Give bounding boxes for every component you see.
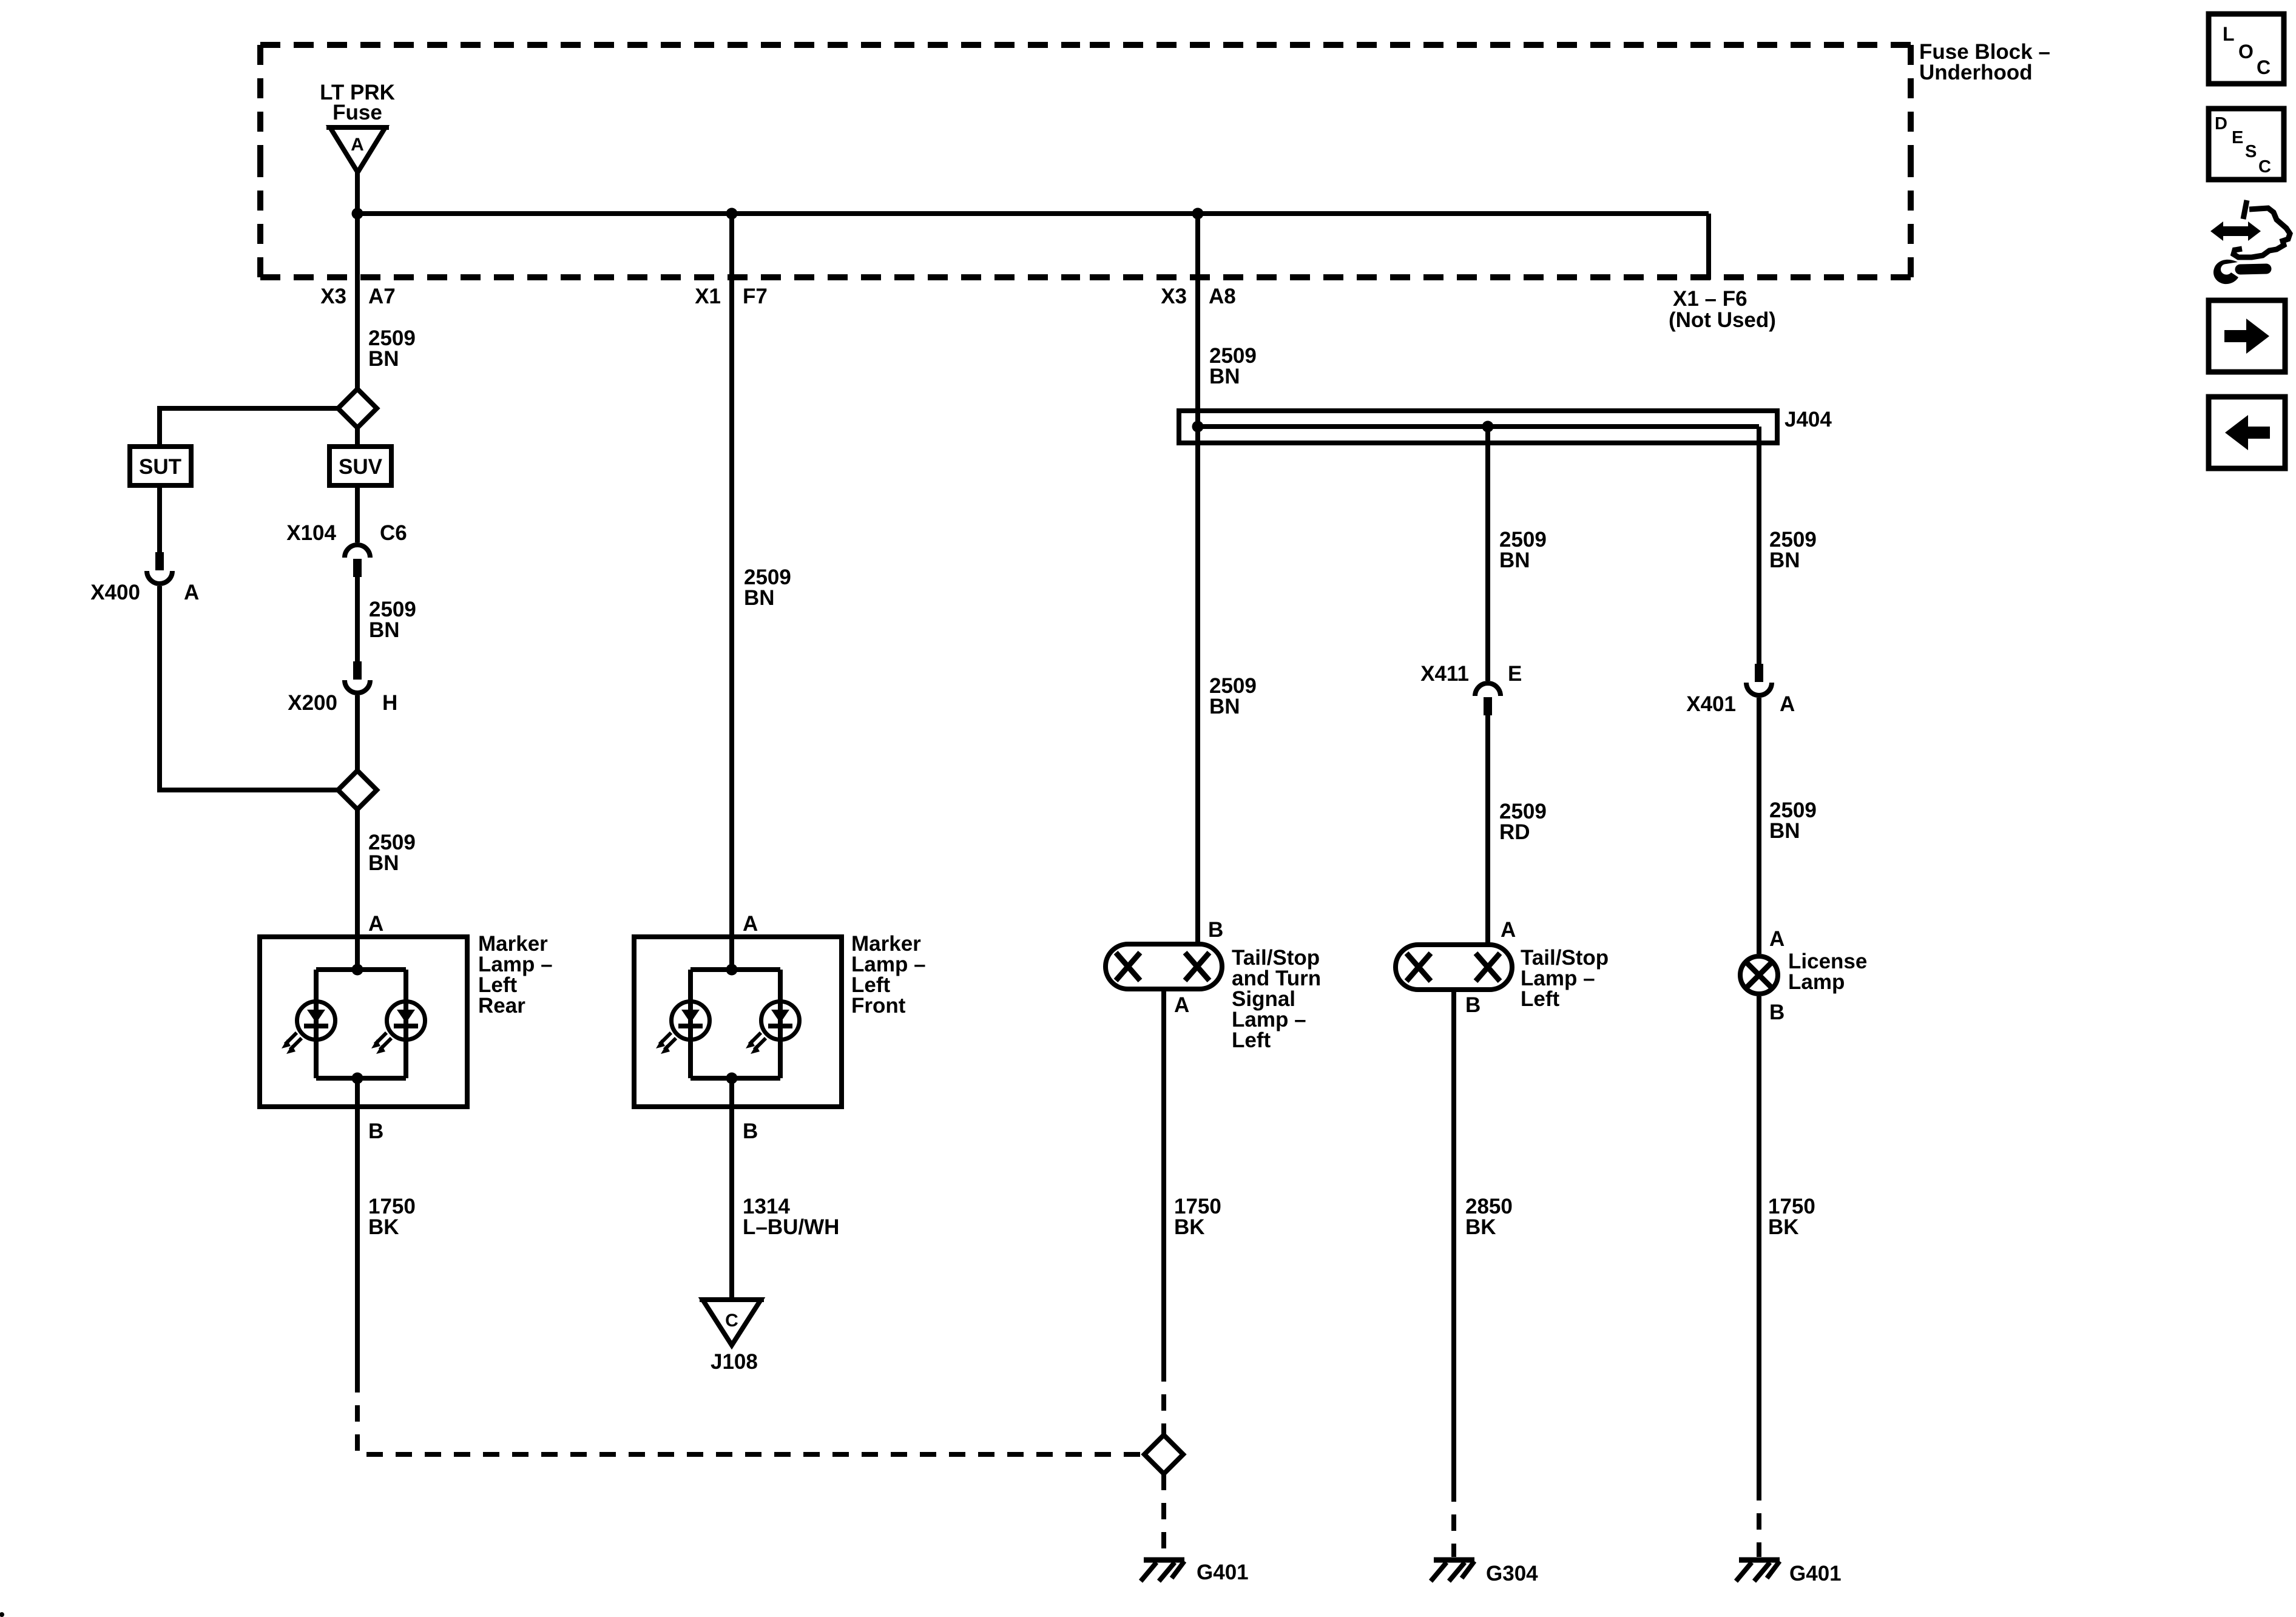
wire: SUV to connector X104 bbox=[355, 485, 360, 542]
svg-text:Front: Front bbox=[851, 994, 906, 1018]
wire: diamond S1 left branch to SUT bbox=[160, 408, 338, 447]
bulb X left of lamp4 bbox=[1406, 953, 1431, 981]
connector X401 socket A (female cup) bbox=[1746, 683, 1772, 695]
svg-text:F7: F7 bbox=[743, 285, 768, 308]
wire: lamp2 pin B down to J108 bbox=[729, 1078, 734, 1300]
svg-text:C: C bbox=[725, 1311, 738, 1331]
connector X104 socket C6 (female dome) bbox=[345, 545, 370, 558]
Marker Lamp - Left Rear outer box bbox=[260, 937, 467, 1107]
svg-text:X1 – F6: X1 – F6 bbox=[1673, 287, 1747, 311]
svg-text:C: C bbox=[2257, 56, 2271, 78]
wire: diamond S1 to SUV bbox=[355, 428, 360, 447]
ground triangle J108 destination C bbox=[703, 1300, 761, 1345]
LED D1 of lamp2 bbox=[656, 1001, 710, 1054]
svg-text:BN: BN bbox=[368, 347, 399, 371]
svg-text:A: A bbox=[351, 135, 364, 155]
icon box DESC bbox=[2209, 109, 2284, 180]
svg-text:X104: X104 bbox=[286, 521, 336, 545]
wire: X400 down and right to splice diamond S2 bbox=[160, 586, 338, 790]
svg-text:G401: G401 bbox=[1789, 1562, 1842, 1585]
svg-text:BN: BN bbox=[1769, 819, 1800, 843]
svg-text:A: A bbox=[1501, 918, 1516, 942]
svg-text:Left: Left bbox=[1521, 987, 1560, 1011]
connector X400 socket (female cup) bbox=[147, 571, 172, 584]
bulb X right of lamp4 bbox=[1476, 953, 1500, 981]
svg-text:E: E bbox=[1508, 662, 1522, 686]
svg-text:B: B bbox=[1465, 993, 1481, 1017]
svg-text:G401: G401 bbox=[1197, 1561, 1249, 1584]
Marker Lamp - Left Front outer box bbox=[634, 937, 842, 1107]
svg-text:A: A bbox=[1780, 692, 1795, 716]
bulb X left of lamp3 bbox=[1116, 953, 1140, 981]
svg-text:BN: BN bbox=[1209, 365, 1240, 388]
J404 splice pack box bbox=[1179, 411, 1777, 443]
svg-text:X411: X411 bbox=[1420, 662, 1469, 686]
wire: C5 from J404 right end down to X401 bbox=[1757, 427, 1761, 664]
svg-text:X1: X1 bbox=[695, 285, 721, 308]
node: bus junction at C1 bbox=[352, 208, 363, 220]
node: lamp2 top junction bbox=[726, 964, 738, 976]
node: lamp1 bottom junction bbox=[352, 1073, 363, 1084]
node: bus junction at C3 bbox=[1192, 208, 1204, 220]
wire: dashed S3 to ground G401 bbox=[1161, 1474, 1166, 1557]
svg-text:B: B bbox=[1208, 918, 1223, 942]
icon: vehicle with double arrow and wrench bbox=[2210, 200, 2290, 284]
wire: lamp4 pin B down bbox=[1451, 990, 1456, 1485]
node: lamp2 bottom junction bbox=[726, 1073, 738, 1084]
svg-text:X400: X400 bbox=[90, 581, 140, 604]
svg-text:BK: BK bbox=[1768, 1215, 1799, 1239]
svg-text:Fuse: Fuse bbox=[333, 101, 382, 124]
wire: dashed to ground G401 right bbox=[1757, 1484, 1761, 1557]
connector X400 pin A (male) bbox=[155, 552, 164, 570]
svg-text:A: A bbox=[1769, 927, 1784, 951]
icon box left arrow bbox=[2209, 397, 2285, 468]
wire: dashed to ground G304 bbox=[1451, 1485, 1456, 1557]
svg-text:O: O bbox=[2238, 41, 2254, 62]
node: lamp1 top junction bbox=[352, 964, 363, 976]
svg-text:G304: G304 bbox=[1486, 1562, 1538, 1585]
ground G401 (right) bbox=[1736, 1560, 1780, 1581]
svg-text:(Not Used): (Not Used) bbox=[1669, 308, 1776, 332]
svg-text:BN: BN bbox=[1209, 695, 1240, 718]
svg-text:B: B bbox=[368, 1119, 383, 1143]
svg-text:SUT: SUT bbox=[139, 455, 181, 479]
wire: fuse output down through X3 A7 to splice diamond bbox=[355, 172, 360, 389]
wire: C3 through J404 down to Tail/Stop and Turn Signal Lamp bbox=[1195, 214, 1200, 945]
connector X104 pin (male) bbox=[353, 559, 362, 577]
svg-text:BN: BN bbox=[1769, 549, 1800, 572]
svg-text:BN: BN bbox=[368, 851, 399, 875]
wire: dashed to splice diamond S3 bbox=[1161, 1365, 1166, 1435]
SUV option box bbox=[329, 447, 391, 485]
svg-text:A: A bbox=[184, 581, 199, 604]
connector X401 pin (male) bbox=[1755, 664, 1763, 682]
connector X411 socket E (female dome) bbox=[1475, 683, 1501, 696]
wire: X104 to X200 bbox=[355, 577, 360, 661]
splice diamond S2 bbox=[338, 771, 377, 809]
svg-text:A: A bbox=[368, 912, 383, 936]
svg-text:D: D bbox=[2215, 114, 2227, 133]
node: J404 junction at C4 bbox=[1482, 421, 1494, 433]
svg-text:BK: BK bbox=[368, 1215, 399, 1239]
Tail/Stop and Turn Signal Lamp - Left (stadium with two bulbs) bbox=[1106, 944, 1222, 989]
wire: C4 from J404 down to X411 bbox=[1485, 427, 1490, 681]
LED D2 of lamp1 bbox=[371, 1001, 425, 1054]
svg-text:L–BU/WH: L–BU/WH bbox=[743, 1215, 839, 1239]
svg-text:H: H bbox=[382, 691, 397, 715]
svg-text:X3: X3 bbox=[320, 285, 346, 308]
svg-text:Left: Left bbox=[1232, 1028, 1271, 1052]
svg-text:L: L bbox=[2223, 23, 2235, 45]
svg-text:Underhood: Underhood bbox=[1919, 61, 2033, 84]
wire: C2 from bus X1 F7 down to Marker Lamp Left Front bbox=[729, 214, 734, 970]
svg-text:Lamp: Lamp bbox=[1788, 970, 1845, 994]
connector X200 socket H (female cup) bbox=[345, 680, 370, 693]
svg-text:E: E bbox=[2232, 128, 2243, 147]
wire: lamp1 inner parallel box bbox=[316, 970, 406, 1078]
svg-text:RD: RD bbox=[1499, 820, 1530, 844]
wire: License Lamp pin B down bbox=[1757, 996, 1761, 1484]
wire: right drop to X1-F6 (Not Used) bbox=[1706, 214, 1711, 280]
svg-text:A7: A7 bbox=[368, 285, 396, 308]
wire: lamp3 pin A down bbox=[1161, 989, 1166, 1365]
connector X411 pin (male) bbox=[1484, 697, 1492, 715]
svg-text:SUV: SUV bbox=[339, 455, 383, 479]
wire: bus from fuse to right drop bbox=[357, 211, 1709, 216]
splice diamond S1 bbox=[338, 389, 377, 428]
svg-text:J108: J108 bbox=[711, 1350, 758, 1374]
ground G304 bbox=[1431, 1560, 1474, 1581]
svg-text:C6: C6 bbox=[380, 521, 407, 545]
svg-text:A: A bbox=[1174, 993, 1189, 1017]
wire: X411 to Tail/Stop Lamp - Left bbox=[1485, 715, 1490, 945]
icon box right arrow bbox=[2209, 300, 2285, 372]
stray print speck bottom-left bbox=[0, 1612, 4, 1617]
ground G401 (left) bbox=[1141, 1560, 1184, 1581]
License Lamp bulb bbox=[1740, 956, 1778, 994]
node: bus junction at C2 bbox=[726, 208, 738, 220]
svg-text:C: C bbox=[2258, 157, 2271, 177]
svg-text:BN: BN bbox=[744, 586, 775, 610]
bulb X right of lamp3 bbox=[1185, 953, 1209, 981]
svg-text:X200: X200 bbox=[288, 691, 337, 715]
LED D1 of lamp1 bbox=[282, 1001, 336, 1054]
wire: SUT to connector X400 bbox=[157, 485, 162, 552]
connector X200 pin (male) bbox=[353, 661, 362, 680]
svg-text:J404: J404 bbox=[1784, 408, 1832, 431]
Fuse Block - Underhood dashed box bbox=[260, 45, 1911, 277]
wire: X200 to splice diamond S2 bbox=[355, 695, 360, 771]
svg-text:BN: BN bbox=[1499, 549, 1530, 572]
Tail/Stop Lamp - Left (stadium with two bulbs) bbox=[1396, 945, 1512, 990]
wire: lamp1 pin B down bbox=[355, 1078, 360, 1376]
SUT option box bbox=[130, 447, 191, 485]
svg-text:A: A bbox=[743, 912, 758, 936]
wire: dashed continuation of 1750 BK to splice diamond S3 bbox=[357, 1376, 1144, 1454]
splice diamond S3 bbox=[1144, 1435, 1183, 1474]
wire: X401 to License Lamp bbox=[1757, 698, 1761, 954]
wire: diamond S2 to Marker Lamp Left Rear pin A bbox=[355, 809, 360, 970]
svg-text:BK: BK bbox=[1174, 1215, 1205, 1239]
wire: lamp2 inner parallel box bbox=[690, 970, 780, 1078]
svg-text:B: B bbox=[743, 1119, 758, 1143]
LED D2 of lamp2 bbox=[746, 1001, 800, 1054]
icon box LOC bbox=[2209, 14, 2284, 84]
svg-text:BK: BK bbox=[1465, 1215, 1496, 1239]
svg-text:S: S bbox=[2245, 142, 2257, 161]
svg-text:A8: A8 bbox=[1209, 285, 1236, 308]
fuse LT PRK triangle symbol A bbox=[330, 127, 385, 172]
svg-text:X3: X3 bbox=[1161, 285, 1187, 308]
node: J404 junction at C3 bbox=[1192, 421, 1204, 433]
svg-text:Rear: Rear bbox=[478, 994, 525, 1018]
svg-text:B: B bbox=[1769, 1001, 1784, 1024]
svg-text:BN: BN bbox=[369, 618, 400, 642]
svg-text:X401: X401 bbox=[1686, 692, 1736, 716]
wire: J404 internal bus bbox=[1198, 424, 1759, 429]
